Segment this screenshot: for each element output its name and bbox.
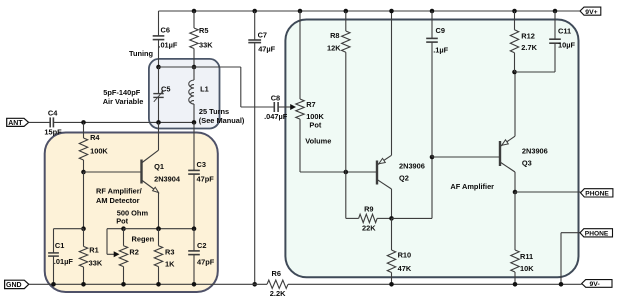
- wire C1 to R1 junction: [54, 228, 84, 230]
- svg-text:33K: 33K: [89, 258, 103, 267]
- resistor R4: [83, 122, 85, 138]
- capacitor C8: [273, 102, 275, 112]
- wire Q1 base: [84, 171, 142, 173]
- svg-text:R7: R7: [306, 100, 315, 109]
- wire ANT to C4: [29, 121, 51, 123]
- svg-text:L1: L1: [200, 84, 209, 93]
- inductor L1: [193, 67, 195, 80]
- svg-text:C4: C4: [48, 109, 58, 118]
- svg-text:AM Detector: AM Detector: [96, 196, 140, 205]
- svg-text:C9: C9: [436, 26, 445, 35]
- svg-text:Air Variable: Air Variable: [103, 97, 144, 106]
- svg-text:10K: 10K: [520, 264, 534, 273]
- capacitor C1: [53, 229, 55, 253]
- svg-text:R10: R10: [398, 251, 412, 260]
- svg-text:R3: R3: [165, 247, 174, 256]
- resistor R10: [391, 218, 393, 250]
- svg-text:PHONE: PHONE: [585, 231, 609, 238]
- svg-text:9V-: 9V-: [590, 281, 600, 288]
- svg-text:GND: GND: [6, 282, 22, 289]
- transistor Q1 2N3904: [140, 160, 142, 184]
- wire tank top: [159, 66, 195, 68]
- svg-text:.1µF: .1µF: [433, 45, 448, 54]
- svg-text:(See Manual): (See Manual): [199, 116, 245, 125]
- node C5 bottom / Q1 collector: [156, 120, 161, 125]
- resistor R12: [512, 9, 517, 14]
- wire 9V+ top rail: [159, 10, 581, 12]
- svg-text:R11: R11: [520, 252, 533, 261]
- resistor R5: [192, 9, 197, 14]
- svg-text:2N3906: 2N3906: [399, 162, 425, 171]
- svg-text:Q3: Q3: [522, 159, 532, 168]
- wire ground rail left: [29, 283, 267, 285]
- wire tank to C8: [194, 66, 241, 68]
- capacitor C6: [153, 35, 165, 37]
- svg-text:Tuning: Tuning: [129, 49, 154, 58]
- svg-text:2N3906: 2N3906: [522, 146, 548, 155]
- svg-text:47pF: 47pF: [197, 175, 215, 184]
- AF Amplifier section box: [285, 20, 578, 278]
- svg-text:R9: R9: [364, 205, 373, 214]
- node C5 top junction: [156, 65, 161, 70]
- svg-text:C5: C5: [161, 84, 170, 93]
- capacitor C9: [430, 9, 435, 14]
- Tuning section box: [149, 59, 220, 129]
- svg-text:R4: R4: [90, 133, 100, 142]
- svg-text:C3: C3: [197, 160, 206, 169]
- svg-text:100K: 100K: [90, 147, 108, 156]
- node Q3 collector junction: [513, 190, 518, 195]
- node L1 top junction: [192, 65, 197, 70]
- svg-text:9V+: 9V+: [585, 9, 597, 16]
- svg-text:R2: R2: [129, 247, 138, 256]
- svg-text:Q1: Q1: [154, 162, 164, 171]
- wire Q3 collector to PHONE: [515, 191, 581, 193]
- svg-text:2.2K: 2.2K: [270, 289, 286, 298]
- node R8 bottom junction: [344, 170, 349, 175]
- transistor Q2 2N3906: [376, 161, 378, 185]
- svg-text:Pot: Pot: [309, 120, 321, 129]
- svg-text:R6: R6: [272, 269, 281, 278]
- svg-text:C11: C11: [558, 27, 571, 36]
- svg-text:33K: 33K: [199, 40, 213, 49]
- svg-text:C6: C6: [161, 26, 170, 35]
- svg-text:2N3904: 2N3904: [154, 174, 181, 183]
- svg-text:5pF-140pF: 5pF-140pF: [103, 88, 140, 97]
- flag 9V-: [582, 280, 612, 288]
- node Q2 collector junction: [389, 216, 394, 221]
- transistor Q3 2N3906: [499, 141, 501, 166]
- svg-text:Volume: Volume: [305, 136, 331, 145]
- capacitor C2: [193, 229, 195, 251]
- svg-text:.01µF: .01µF: [158, 40, 178, 49]
- wire regen rail: [124, 228, 159, 230]
- svg-text:R8: R8: [330, 31, 339, 40]
- svg-text:ANT: ANT: [8, 120, 23, 127]
- svg-text:R1: R1: [89, 246, 98, 255]
- wire PHONE lower to ground rail: [561, 232, 580, 234]
- svg-text:Regen: Regen: [132, 235, 155, 244]
- wire R4 bottom to C1 junction: [83, 172, 85, 229]
- wire R2 wiper: [107, 228, 124, 230]
- capacitor C5 variable: [158, 67, 160, 94]
- node R12 bottom junction: [512, 70, 517, 75]
- svg-text:1K: 1K: [165, 260, 175, 269]
- svg-text:PHONE: PHONE: [585, 191, 609, 198]
- capacitor C11: [553, 9, 558, 14]
- wire R7 bottom to Q2 base: [300, 171, 376, 173]
- node R4 top: [81, 120, 86, 125]
- svg-text:Pot: Pot: [116, 217, 128, 226]
- svg-text:15pF: 15pF: [44, 127, 62, 136]
- flag GND: [5, 280, 29, 288]
- wire ground rail right: [288, 283, 582, 285]
- wire C4 to tank: [53, 121, 194, 123]
- capacitor C4: [49, 117, 51, 127]
- RF Amplifier / AM Detector section box: [45, 133, 218, 293]
- potentiometer R7 100K volume: [298, 9, 303, 14]
- resistor R8: [344, 9, 349, 14]
- wire R5 bottom lead: [193, 49, 195, 68]
- flag ANT: [7, 118, 29, 126]
- svg-text:2.7K: 2.7K: [521, 43, 537, 52]
- svg-text:R12: R12: [521, 31, 535, 40]
- wire C8 to R7 wiper arrow: [278, 106, 293, 108]
- svg-text:12K: 12K: [327, 44, 341, 53]
- potentiometer R2 500 ohm: [121, 226, 126, 231]
- svg-text:Q2: Q2: [399, 174, 409, 183]
- svg-text:47K: 47K: [398, 264, 412, 273]
- svg-text:C1: C1: [55, 241, 64, 250]
- wire C6 top lead: [158, 11, 160, 36]
- svg-text:22K: 22K: [362, 224, 376, 233]
- wire C7 bottom lead: [254, 43, 256, 285]
- svg-text:25 Turns: 25 Turns: [199, 107, 229, 116]
- capacitor C3: [193, 122, 195, 170]
- svg-text:.01µF: .01µF: [54, 257, 74, 266]
- flag 9V+: [580, 7, 601, 15]
- wire C6 bottom lead: [158, 40, 160, 67]
- resistor R11: [514, 192, 516, 250]
- svg-text:AF Amplifier: AF Amplifier: [450, 182, 494, 191]
- svg-text:47pF: 47pF: [197, 257, 215, 266]
- resistor R6: [267, 280, 288, 288]
- svg-text:C8: C8: [271, 93, 280, 102]
- capacitor C7: [252, 9, 257, 14]
- node L1 bottom / C3 top: [192, 120, 197, 125]
- wire emitter rail: [159, 228, 195, 230]
- svg-text:47µF: 47µF: [258, 45, 275, 54]
- flag PHONE upper: [581, 189, 613, 197]
- node Q1 base junction: [81, 170, 86, 175]
- svg-text:R5: R5: [199, 26, 208, 35]
- resistor R3: [156, 226, 161, 231]
- node C9 bottom junction: [430, 155, 435, 160]
- svg-text:10µF: 10µF: [558, 41, 575, 50]
- flag PHONE lower: [580, 229, 613, 237]
- wire Q2 collector to Q3 base: [392, 217, 433, 219]
- svg-text:C2: C2: [197, 241, 206, 250]
- node C1 / R1 junction: [81, 226, 86, 231]
- svg-text:C7: C7: [258, 31, 267, 40]
- svg-text:.047µF: .047µF: [264, 112, 288, 121]
- svg-text:RF Amplifier/: RF Amplifier/: [96, 186, 142, 195]
- resistor R9 feedback: [345, 172, 347, 218]
- resistor R1: [83, 229, 85, 247]
